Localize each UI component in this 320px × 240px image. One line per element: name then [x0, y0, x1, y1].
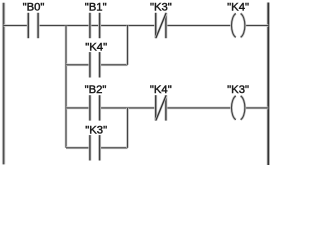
svg-text:"K3": "K3": [85, 124, 107, 136]
svg-text:"K4": "K4": [150, 84, 172, 96]
wire: branch vertical from B0 output down to rung2 parallel branch: [65, 26, 68, 148]
svg-text:"K4": "K4": [227, 2, 249, 14]
wire: rung1 parallel branch left segment: [66, 64, 90, 67]
wire: rung1 parallel join vertical: [126, 26, 129, 65]
wire: rung2 parallel branch right segment: [100, 147, 128, 150]
svg-text:"K3": "K3": [227, 84, 249, 96]
contact K4 (NO) parallel rung1: [90, 52, 100, 77]
wire rung1: coil K4 to right rail: [245, 24, 268, 27]
contact B0 (NO): [28, 13, 38, 38]
svg-text:"B0": "B0": [23, 2, 45, 14]
wire rung1: left rail to contact B0: [4, 24, 29, 27]
right power rail: [267, 3, 270, 166]
coil K4 rung1: [231, 14, 244, 38]
svg-text:"K3": "K3": [150, 2, 172, 14]
wire rung2: branch to contact B2: [66, 107, 90, 110]
wire rung2: coil K3 to right rail: [245, 107, 268, 110]
wire rung2: B2 to NC contact K4: [100, 107, 156, 110]
svg-text:"B1": "B1": [85, 2, 107, 14]
svg-text:"B2": "B2": [85, 84, 107, 96]
wire: rung2 parallel branch left segment: [66, 147, 90, 150]
wire rung1: B0 to NC contact K3: [38, 24, 156, 27]
contact B1 (NO): [90, 13, 100, 38]
left power rail: [2, 3, 5, 165]
coil K3 rung2: [231, 96, 244, 120]
wire rung1: NC K3 to coil K4: [166, 24, 232, 27]
contact K3 (NO) parallel rung2: [90, 135, 100, 160]
contact K3 (NC) rung1: [156, 13, 166, 38]
contact K4 (NC) rung2: [156, 95, 166, 120]
svg-text:"K4": "K4": [85, 42, 107, 54]
wire: rung2 parallel join vertical: [126, 108, 129, 148]
contact B2 (NO): [90, 95, 100, 120]
wire rung2: NC K4 to coil K3: [166, 107, 232, 110]
wire: rung1 parallel branch right segment: [100, 64, 128, 67]
